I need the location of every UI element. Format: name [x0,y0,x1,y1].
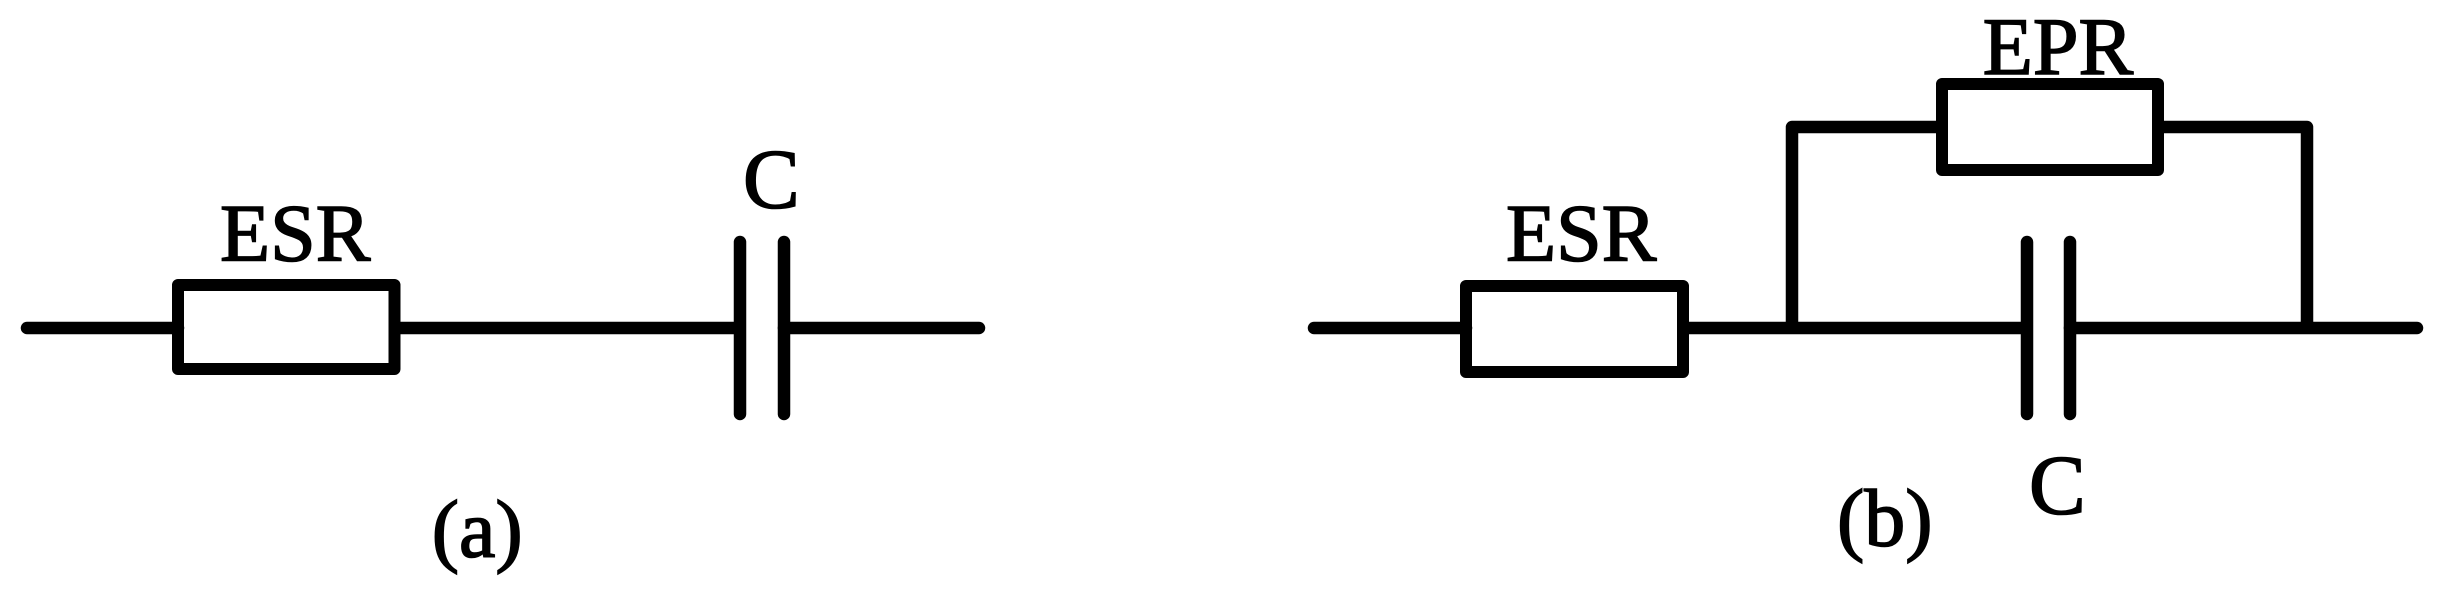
svg-text:ESR: ESR [1506,187,1657,278]
resistor EPR (circuit b) [1942,84,2158,170]
wire: right branch from EPR down to node B (circuit b) [2158,127,2307,328]
svg-text:EPR: EPR [1983,1,2134,92]
capacitor C (circuit a) [740,242,784,414]
wire: ESR to capacitor C, node A tee (circuit b) [1689,322,2027,335]
svg-text:ESR: ESR [220,187,371,278]
wire: circuit (a) left lead [27,322,178,335]
resistor ESR (circuit b) [1466,286,1683,372]
svg-text:C: C [743,132,800,226]
svg-text:(b): (b) [1837,473,1933,564]
svg-text:C: C [2029,439,2086,533]
wire: circuit (b) right lead through node B [2070,322,2417,335]
capacitor C (circuit b) [2027,242,2070,414]
wire: ESR to capacitor C (circuit a) [398,322,740,335]
wire: left branch up from node A to EPR (circuit b) [1792,127,1942,328]
wire: circuit (a) right lead [784,322,979,335]
wire: circuit (b) left lead [1314,322,1466,335]
resistor ESR (circuit a) [178,285,395,369]
svg-text:(a): (a) [432,483,523,574]
